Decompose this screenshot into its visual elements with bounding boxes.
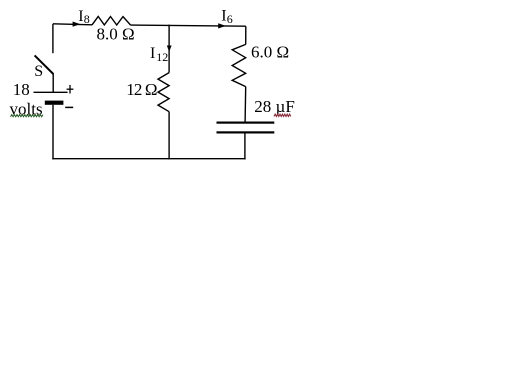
resistor R 8.0 ohm (zigzag) bbox=[92, 16, 131, 25]
battery plus sign bbox=[67, 88, 74, 90]
arrowhead for current I8 bbox=[73, 22, 81, 27]
spellcheck squiggle (red) under uF bbox=[274, 114, 291, 116]
wire: top horizontal segment from 8-ohm resistor to top-right corner bbox=[131, 25, 246, 26]
svg-text:8.0 Ω: 8.0 Ω bbox=[97, 25, 135, 44]
svg-text:18: 18 bbox=[13, 80, 30, 99]
arrowhead for current I12 (downward) bbox=[167, 46, 172, 52]
battery minus sign bbox=[65, 106, 73, 108]
svg-text:12 Ω: 12 Ω bbox=[126, 80, 157, 99]
capacitor C 28 uF bottom plate bbox=[217, 131, 275, 133]
svg-text:6: 6 bbox=[227, 12, 233, 26]
svg-text:28 µF: 28 µF bbox=[254, 97, 294, 116]
wire: right branch vertical from capacitor bottom plate to bottom wire bbox=[244, 133, 246, 159]
wire: top-left horizontal segment (battery branch top to 8-ohm resistor) bbox=[53, 24, 92, 25]
svg-text:I: I bbox=[78, 8, 83, 25]
wire: middle branch vertical from top node down to 12-ohm resistor bbox=[168, 25, 170, 73]
capacitor C 28 uF top plate bbox=[217, 122, 275, 124]
svg-text:8: 8 bbox=[84, 12, 90, 26]
wire: bottom horizontal rail bbox=[52, 158, 245, 160]
wire: middle branch vertical from 12-ohm resistor to bottom wire bbox=[168, 112, 170, 160]
arrowhead for current I6 bbox=[218, 23, 226, 28]
wire: left branch vertical stub from top-left corner down to switch contact bbox=[52, 24, 54, 53]
resistor R 6.0 ohm (vertical zigzag) bbox=[232, 44, 246, 86]
wire: right branch vertical from 6-ohm resistor to capacitor top plate bbox=[244, 87, 247, 122]
switch S blade (open) bbox=[35, 55, 54, 74]
wire: left vertical from battery negative plate to bottom rail bbox=[52, 105, 54, 160]
resistor R 12 ohm (vertical zigzag) bbox=[158, 73, 169, 112]
svg-text:6.0 Ω: 6.0 Ω bbox=[251, 43, 289, 62]
svg-text:S: S bbox=[34, 63, 43, 80]
wire: right branch vertical from top-right corner to 6-ohm resistor bbox=[245, 26, 247, 44]
svg-text:I: I bbox=[150, 45, 155, 62]
svg-text:12: 12 bbox=[156, 50, 168, 64]
battery negative plate (short thick) bbox=[45, 101, 64, 105]
svg-text:I: I bbox=[221, 8, 226, 25]
wire: left vertical from switch to battery positive plate bbox=[52, 74, 54, 93]
spellcheck squiggle (green) under volts bbox=[11, 115, 44, 117]
battery positive plate (long thin) bbox=[34, 91, 68, 93]
